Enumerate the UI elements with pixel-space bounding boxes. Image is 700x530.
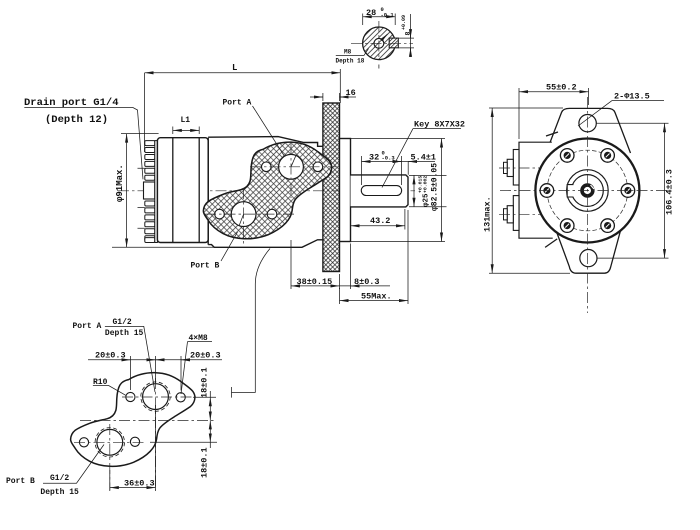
key width 8 dim line: [410, 14, 412, 57]
bolt bottom-left: [560, 219, 574, 233]
dim L line: [145, 72, 341, 74]
horizontal centerline: [500, 190, 670, 192]
body section line 2: [198, 138, 200, 243]
dim 32 line: [362, 161, 402, 163]
bolt hole top-right: [313, 162, 323, 172]
svg-text:55±0.2: 55±0.2: [546, 82, 577, 92]
phi91 dim line: [126, 134, 128, 248]
svg-text:18±0.1: 18±0.1: [200, 447, 210, 478]
port B thread tick: [239, 214, 244, 226]
hub circle: [567, 170, 609, 212]
svg-text:-0.3: -0.3: [382, 155, 396, 162]
flange bottom tab: [552, 220, 624, 274]
phi91 extensions: [112, 134, 214, 248]
svg-text:φ25: φ25: [423, 193, 431, 207]
port face outline: [71, 373, 195, 467]
dim L1 line: [173, 129, 199, 131]
port A vertical centerline: [290, 144, 292, 198]
plug upper hex: [507, 159, 513, 176]
svg-text:36±0.3: 36±0.3: [124, 479, 155, 489]
port boss upper: [513, 150, 519, 186]
dim 131 line: [491, 108, 493, 273]
bolt right: [621, 184, 635, 198]
svg-text:131max.: 131max.: [483, 196, 493, 232]
body section line 1: [172, 138, 174, 243]
chamfer line bottom-left: [545, 239, 557, 248]
chamfer line top-left: [546, 132, 558, 136]
dim 55Max line: [340, 300, 409, 302]
M8 center hole: [374, 38, 384, 48]
svg-text:G1/2: G1/2: [50, 474, 69, 483]
dim 28 extension lines: [363, 14, 396, 26]
vertical centerline: [586, 97, 588, 313]
vertical centerline: [378, 21, 380, 60]
bolt circle dashed: [547, 150, 628, 231]
main axis centerline: [118, 190, 415, 192]
svg-text:M8: M8: [344, 49, 352, 56]
port A threaded circle: [143, 384, 169, 410]
bolt bottom-right: [601, 219, 615, 233]
svg-text:106.4±0.3: 106.4±0.3: [665, 169, 675, 215]
dim 18 lower line: [209, 420, 211, 442]
drain label underline + leader: [24, 108, 143, 180]
port A row centerline: [250, 166, 336, 168]
svg-text:(Depth 12): (Depth 12): [45, 114, 108, 126]
svg-text:Port A: Port A: [223, 99, 252, 108]
dim 38 extensions: [291, 240, 351, 289]
shaft circle: [572, 175, 604, 207]
horizontal centerline: [351, 42, 413, 44]
svg-text:Key 8X7X32: Key 8X7X32: [414, 120, 465, 130]
key width 8 extension lines: [398, 38, 414, 48]
svg-text:-0.1: -0.1: [381, 11, 395, 18]
flange mid centerline: [80, 419, 217, 421]
keyway slot in shaft: [361, 186, 401, 196]
bolt left: [540, 184, 554, 198]
port A row centerline: [122, 396, 196, 398]
dim 18 upper extensions: [193, 396, 216, 398]
svg-text:2-Φ13.5: 2-Φ13.5: [614, 92, 650, 102]
dim 20 extensions: [130, 356, 181, 391]
upper boss centerline: [499, 167, 545, 169]
svg-text:20±0.3: 20±0.3: [190, 351, 221, 361]
port A circle (main view): [279, 154, 304, 179]
keyway in shaft: [567, 185, 573, 197]
svg-text:8: 8: [405, 32, 412, 36]
port B threaded circle: [97, 429, 123, 455]
mounting plate (16 thick, cross-hatched): [323, 103, 340, 272]
phi25 extensions: [409, 175, 447, 206]
svg-text:L1: L1: [181, 116, 191, 125]
svg-text:Depth 18: Depth 18: [336, 58, 365, 65]
dim 38/8 line: [291, 285, 340, 287]
svg-text:φ91Max.: φ91Max.: [115, 164, 125, 202]
motor body cylinder: [157, 138, 208, 243]
M8 hole A-left: [126, 392, 135, 401]
M8 thread ring: [582, 185, 593, 196]
svg-text:43.2: 43.2: [370, 216, 390, 226]
bolt top-right: [601, 149, 615, 163]
dim 36 extensions: [110, 405, 156, 491]
port B circle (main view): [231, 202, 256, 227]
svg-text:5.4±1: 5.4±1: [411, 153, 437, 163]
svg-text:φ82.5±0.05: φ82.5±0.05: [431, 163, 440, 211]
main body circle thick: [535, 139, 639, 243]
dim 131 extensions: [489, 108, 570, 273]
M8 hole B-right: [130, 437, 139, 446]
dim 32 extensions: [362, 156, 402, 185]
dim 20 line: [88, 359, 222, 361]
plug lower tip: [504, 209, 508, 220]
M8 hole A-right: [176, 393, 185, 402]
svg-text:20±0.3: 20±0.3: [95, 351, 126, 361]
diagonal arrow in circle: [374, 34, 388, 48]
bottom tab hole: [580, 250, 597, 267]
port B vertical centerline: [109, 424, 111, 490]
front flange housing profile: [208, 137, 323, 248]
svg-text:Depth 15: Depth 15: [40, 488, 79, 497]
dim 18 lower extension: [150, 441, 217, 443]
svg-text:16: 16: [346, 88, 356, 98]
svg-text:Depth 15: Depth 15: [105, 329, 144, 338]
dim 106.4 line: [664, 123, 666, 258]
phi82.5 dim line: [441, 139, 443, 242]
bolt hole bottom-left: [215, 209, 225, 219]
thread ring slash: [591, 185, 595, 189]
Port A leader: [253, 106, 285, 156]
svg-text:8±0.3: 8±0.3: [354, 277, 380, 287]
fraction line + leader B: [43, 445, 104, 484]
port A thread tick: [291, 155, 296, 167]
bolt hole top-left: [262, 162, 272, 172]
plug upper tip: [504, 162, 508, 173]
port B row centerline: [205, 213, 296, 215]
phi82.5 extensions: [351, 139, 446, 242]
svg-text:L: L: [232, 63, 237, 73]
bolt hole bottom-right: [267, 209, 277, 219]
phi25 dim line: [413, 175, 415, 206]
4xM8 underline + leader: [181, 342, 212, 394]
rib feature ticks: [138, 168, 145, 228]
2-phi13.5 underline+leader: [578, 101, 664, 126]
svg-text:G1/2: G1/2: [113, 318, 132, 327]
dim 16 line + arrows outside: [310, 96, 356, 98]
dim L1 extensions: [173, 127, 199, 135]
shaft section circle hatched: [363, 27, 396, 60]
dim 106.4 extensions: [596, 123, 669, 258]
port B vertical centerline: [243, 188, 245, 246]
M8 hole B-left: [79, 438, 88, 447]
dim 28 line: [363, 16, 396, 18]
lower boss centerline: [499, 213, 545, 215]
svg-text:32: 32: [369, 153, 379, 163]
section connector line: [232, 249, 271, 398]
top tab hole: [579, 115, 596, 132]
svg-text:Port B: Port B: [191, 262, 220, 271]
key cross-section: [389, 38, 398, 48]
centerline tick below: [378, 65, 380, 69]
port A vertical centerline: [155, 378, 157, 490]
dim 43.2 line: [351, 225, 405, 227]
rear cover bolt-rib stack: [145, 141, 155, 243]
Port B leader: [221, 232, 238, 261]
svg-text:38±0.15: 38±0.15: [297, 277, 333, 287]
dim 18 upper line: [209, 397, 211, 420]
dim 16 extensions: [323, 93, 340, 101]
port boss lower: [513, 196, 519, 231]
svg-text:+0.09: +0.09: [401, 15, 407, 30]
svg-text:18±0.1: 18±0.1: [200, 367, 210, 398]
svg-text:+0.002: +0.002: [423, 176, 429, 193]
dim 55Max extensions: [340, 210, 409, 304]
pilot boss phi82.5: [340, 139, 351, 242]
rear body slab: [519, 142, 553, 238]
dim 36 line: [110, 487, 156, 489]
port manifold dog-bone (section, cross-hatched): [203, 142, 331, 239]
bolt top-left: [560, 149, 574, 163]
Key underline + leader: [382, 129, 461, 188]
bolts: [540, 149, 635, 233]
svg-text:Port A: Port A: [73, 322, 102, 331]
dim 55 extensions: [519, 88, 589, 139]
fraction line + leader A: [105, 326, 155, 392]
dim 5.4 extension: [407, 162, 409, 175]
dim 43.2 extensions: [351, 209, 405, 230]
output shaft phi25: [351, 175, 409, 207]
port B row centerline: [74, 441, 146, 443]
R10 underline + leader: [93, 386, 127, 396]
plug lower hex: [507, 206, 513, 223]
M8 underline + leader: [336, 49, 369, 56]
dim 55 line: [519, 91, 589, 93]
rear cap: [155, 141, 158, 243]
arrows 20: [122, 359, 130, 361]
drain boss on rear cover: [144, 182, 155, 199]
dim 5.4 line: [402, 161, 436, 163]
svg-text:Port B: Port B: [6, 477, 35, 486]
svg-text:55Max.: 55Max.: [361, 292, 392, 302]
flange top tab: [546, 108, 631, 153]
dim L extension lines: [145, 69, 341, 152]
svg-text:28: 28: [366, 8, 376, 18]
